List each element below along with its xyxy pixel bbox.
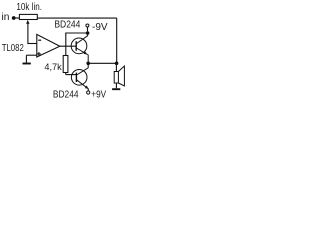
transistor Q1 emitter with arrow (76, 48, 88, 63)
wire speaker to ground (115, 83, 117, 88)
wire wiper to op-amp inverting input (27, 43, 36, 45)
wire plus input down to ground (25, 55, 27, 62)
resistor R1 4.7k stem top (65, 46, 67, 55)
svg-text:BD244: BD244 (54, 19, 80, 30)
svg-text:4,7k: 4,7k (44, 62, 62, 72)
wire -9V terminal stem (87, 27, 89, 31)
node -9V junction (86, 31, 90, 35)
ground speaker (112, 88, 120, 90)
wire output node to speaker (88, 62, 117, 64)
transistor Q2 upper lead (77, 63, 89, 75)
node output junction (86, 62, 90, 66)
wire down into speaker (115, 63, 117, 71)
resistor R1 4.7k body (63, 56, 68, 73)
svg-text:BD244: BD244 (53, 89, 79, 100)
terminal -9V circle (86, 24, 89, 27)
terminal +9V circle (87, 89, 89, 91)
svg-text:+9V: +9V (91, 89, 107, 100)
wire input to pot (13, 17, 20, 19)
op-amp minus sign (38, 39, 41, 41)
wire to Q2 base (66, 74, 77, 76)
svg-text:-9V: -9V (92, 22, 108, 33)
transistor Q2 lower lead with arrow (77, 80, 89, 89)
wire op-amp plus input (26, 54, 36, 56)
resistor R1 stem bottom (65, 73, 67, 75)
transistor Q2 base bar (75, 73, 77, 82)
node speaker junction (115, 62, 119, 66)
transistor Q2 BD244 circle (71, 70, 87, 86)
wire feedback rail down right side (116, 18, 118, 63)
speaker LS1 box (114, 72, 118, 84)
svg-text:TL082: TL082 (2, 42, 24, 53)
wire collector branch to -9V node (65, 32, 87, 34)
op-amp U1 TL082 triangle (37, 34, 60, 57)
potentiometer wiper arrow (26, 20, 29, 24)
wire output up to collector branch (65, 33, 67, 46)
node input junction (12, 16, 16, 20)
potentiometer P1 10k body (19, 14, 37, 19)
ground op-amp plus input (23, 63, 31, 65)
transistor Q1 base bar (75, 41, 77, 51)
svg-text:in: in (2, 12, 10, 23)
wire pot right to feedback rail (37, 17, 117, 19)
wire wiper stem (27, 23, 29, 44)
wire op-amp output (60, 45, 76, 47)
op-amp plus sign (37, 52, 41, 56)
transistor Q1 BD244 circle (71, 38, 87, 54)
speaker cone (118, 66, 124, 86)
transistor Q1 collector (76, 33, 87, 44)
svg-text:10k lin.: 10k lin. (16, 1, 42, 12)
